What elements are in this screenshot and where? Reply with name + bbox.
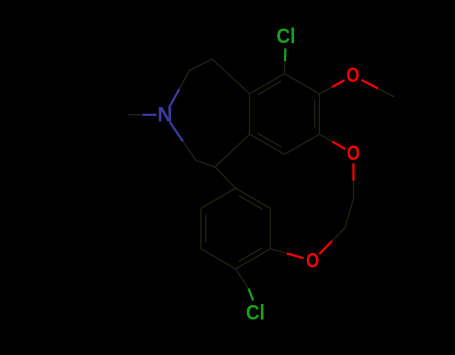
bond C-Cl bottom (green half) <box>249 289 254 301</box>
bond O3-CH2 (carbon half) <box>332 228 345 241</box>
ring2 edge B2-LL2 <box>201 249 236 269</box>
svg-text:Cl: Cl <box>246 302 265 325</box>
svg-text:Cl: Cl <box>277 25 296 48</box>
ring1 edge B-C <box>318 94 320 134</box>
ring1 double bond F-A <box>258 81 282 95</box>
bond N-CH3 (carbon half) <box>128 114 142 116</box>
bond C8-O2 (carbon half) <box>319 134 332 141</box>
bond aryl-O3 (hetero half) <box>287 253 304 258</box>
wire CH2-CH2 <box>345 199 354 229</box>
wire C2-C1 <box>196 161 215 168</box>
bond C-Cl bottom (carbon half) <box>236 269 249 289</box>
ring1 edge E-F <box>249 94 251 134</box>
bond C-OMe (carbon half) <box>319 87 332 94</box>
bond N-C4 (carbon half) <box>179 71 189 90</box>
ring2 double bond LL2-UL2 <box>205 215 207 242</box>
ring1 edge F-A <box>250 74 285 94</box>
ring2 edge LR2-B2 <box>236 249 271 269</box>
ring2 double bond T2-UR2 <box>239 196 262 210</box>
ring2 edge LL2-UL2 <box>200 208 202 248</box>
bond C-Cl top (carbon half) <box>284 61 287 74</box>
ring2 edge UL2-T2 <box>201 188 236 208</box>
ring1 edge D-E <box>250 134 285 154</box>
bond C-Cl top (hetero half) <box>284 48 287 61</box>
wire C5-C5a <box>212 59 250 94</box>
svg-text:O: O <box>347 142 360 165</box>
ring1 double bond B-C <box>314 100 316 127</box>
svg-text:N: N <box>157 104 172 127</box>
bond N-C2 (hetero half) <box>170 122 183 141</box>
svg-text:O: O <box>306 249 319 272</box>
ring2 edge UR2-LR2 <box>269 208 271 248</box>
svg-text:O: O <box>346 64 359 87</box>
bond aryl-O3 (carbon half) <box>270 249 287 254</box>
ring2 edge T2-UR2 <box>236 188 271 208</box>
bond O-CH3 methoxy (hetero half) <box>361 80 378 89</box>
wire C4-C5 <box>190 59 213 71</box>
bond C1-aryl <box>215 167 236 188</box>
bond N-C4 (hetero half) <box>169 89 179 108</box>
ring2 double bond LR2-B2 <box>239 248 262 262</box>
bond N-CH3 (hetero half) <box>142 114 156 116</box>
bond O3-CH2 (hetero half) <box>319 241 332 254</box>
ring1 edge A-B <box>285 74 320 94</box>
bond N-C2 (carbon half) <box>183 141 196 160</box>
ring1 edge C-D <box>285 134 320 154</box>
bond O-CH3 methoxy (carbon half) <box>378 88 395 97</box>
wire C1-C9a <box>215 134 250 167</box>
bond C8-O2 (hetero half) <box>332 142 345 149</box>
ring1 double bond D-E <box>258 133 282 147</box>
bond C-OMe (hetero half) <box>332 80 345 87</box>
bond O2-CH2 (carbon half) <box>353 181 355 199</box>
bond O2-CH2 (hetero half) <box>352 163 354 181</box>
